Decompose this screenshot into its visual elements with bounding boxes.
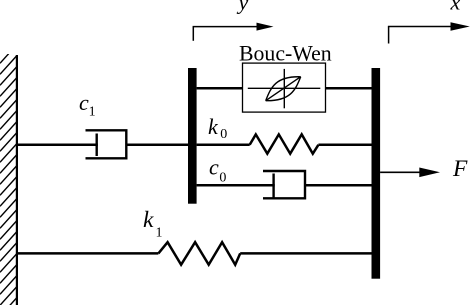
svg-text:x: x — [450, 0, 461, 15]
svg-text:1: 1 — [89, 105, 96, 120]
hysteresis vertical axis — [283, 69, 285, 108]
svg-text:y: y — [237, 0, 249, 15]
Bouc-Wen box — [243, 63, 326, 112]
wire damper c1 to plate y — [126, 144, 188, 147]
wire plate y to damper c0 piston — [197, 184, 275, 187]
hysteresis loop diagonal — [266, 77, 301, 101]
x axis arrow — [388, 26, 452, 28]
spring k1 — [158, 242, 240, 265]
wire spring k1 to plate x — [240, 252, 371, 255]
wire wall to damper c1 piston — [17, 144, 98, 147]
wire wall to spring k1 — [17, 252, 159, 255]
wire spring k0 to plate x — [318, 144, 371, 147]
svg-text:k: k — [208, 114, 219, 139]
svg-text:c: c — [209, 154, 219, 179]
svg-text:1: 1 — [156, 226, 163, 241]
svg-text:0: 0 — [219, 171, 226, 186]
plate x (right bar) — [372, 68, 381, 279]
wall line — [16, 55, 18, 305]
wall hatching — [0, 45, 17, 305]
spring k0 — [250, 134, 319, 153]
svg-text:F: F — [452, 156, 468, 182]
plate y (middle bar) — [188, 68, 197, 204]
svg-text:c: c — [79, 90, 89, 115]
wire damper c0 to plate x — [305, 184, 372, 187]
wire plate y to spring k0 — [197, 144, 250, 147]
svg-text:k: k — [143, 207, 154, 233]
damper c1 piston — [95, 134, 97, 157]
svg-text:Bouc-Wen: Bouc-Wen — [239, 42, 332, 66]
hysteresis loop arcs — [266, 77, 301, 101]
y axis arrow — [193, 26, 258, 28]
damper c0 cylinder — [263, 171, 305, 198]
x axis tick — [388, 27, 390, 44]
force F arrow — [380, 171, 421, 173]
svg-text:0: 0 — [220, 127, 227, 142]
wire Bouc-Wen box to plate x — [326, 87, 372, 90]
wire plate y to Bouc-Wen box — [197, 87, 243, 90]
hysteresis horizontal axis — [248, 87, 320, 89]
damper c0 piston — [272, 174, 274, 198]
damper c1 cylinder — [86, 130, 127, 158]
y axis tick — [192, 27, 194, 41]
